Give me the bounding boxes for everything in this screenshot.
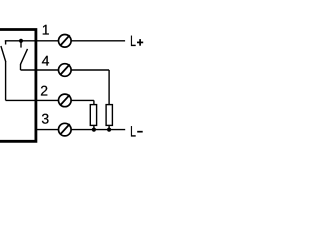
terminal X1 (screw terminal, pin 1) (59, 35, 72, 48)
net label L+ (130, 33, 143, 50)
device outline box (0, 30, 36, 142)
net label L- (130, 123, 143, 140)
resistor R2 (load on output 4) (106, 105, 112, 130)
node junction dot R2/W3 (107, 128, 111, 132)
svg-text:L: L (130, 33, 136, 50)
wire terminal 3 row inside stub (35, 129, 59, 131)
node junction dot on W1 (19, 39, 23, 43)
wire from S2 down to terminal 4 row (21, 64, 59, 70)
svg-text:3: 3 (41, 111, 49, 127)
terminal X3 (screw terminal, pin 3) (59, 123, 72, 136)
svg-text:L: L (130, 123, 136, 140)
resistor R1 (load on output 2) (90, 105, 96, 130)
wire W3 to L- (71, 129, 125, 131)
switch contact S1 (left, opens toward left) (1, 41, 6, 62)
terminal X2 (screw terminal, pin 2) (59, 94, 72, 107)
terminal X4 (screw terminal, pin 4) (59, 64, 72, 77)
node junction dot R1/W3 (92, 128, 96, 132)
wire W2 to load R1 (71, 100, 94, 104)
svg-text:2: 2 (40, 82, 48, 98)
wire from S1 down to terminal 2 row (6, 62, 59, 101)
wire W1 internal bus (terminal 1 row) (5, 40, 59, 42)
switch contact S2 (right, opens toward right) (21, 41, 28, 64)
wire W4 to load R2 (71, 70, 109, 105)
svg-text:1: 1 (42, 22, 50, 38)
svg-text:4: 4 (42, 53, 50, 69)
wire W1 to L+ (71, 40, 125, 42)
